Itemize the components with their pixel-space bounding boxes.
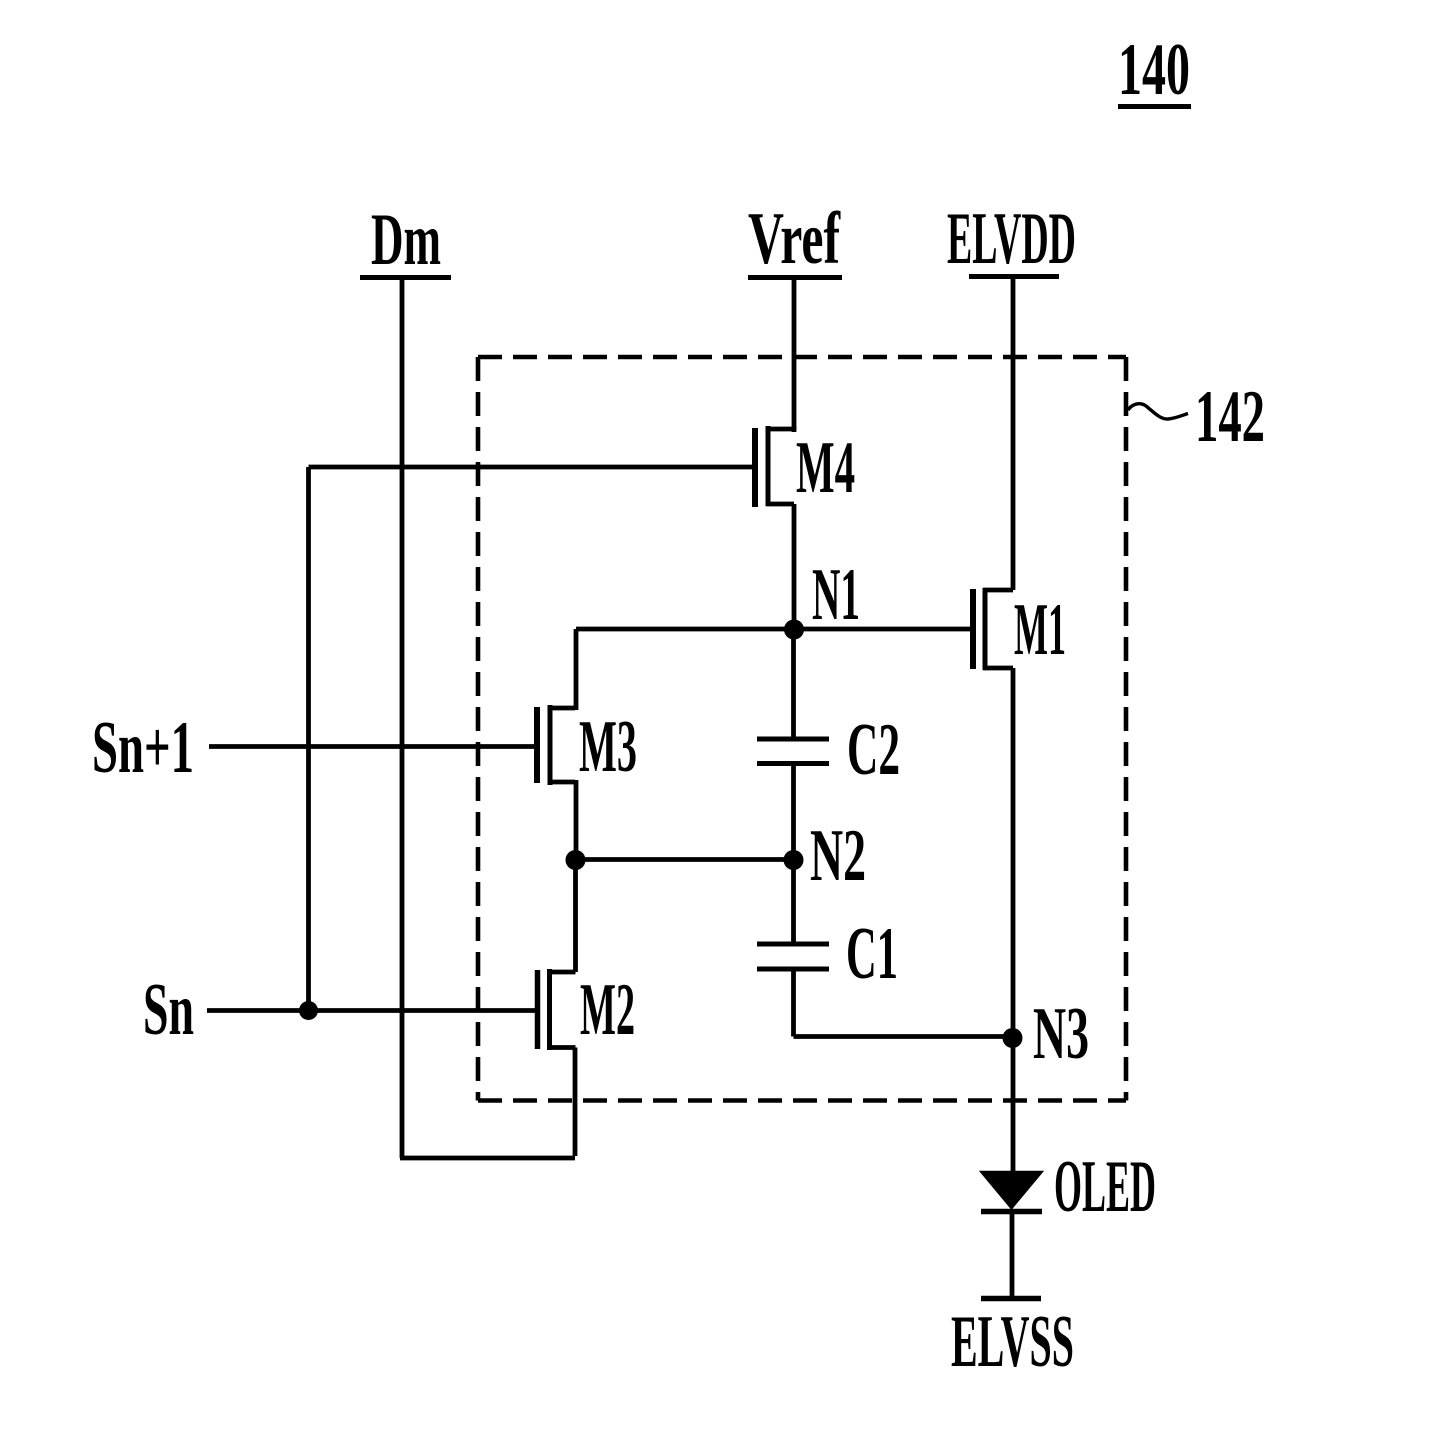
transistor M4 bbox=[755, 426, 794, 507]
wire M1 source to N3 bbox=[1011, 668, 1016, 1038]
label C1 bbox=[846, 913, 898, 995]
node Sn junction bbox=[299, 1001, 318, 1020]
svg-text:C1: C1 bbox=[846, 913, 898, 995]
svg-text:Sn: Sn bbox=[143, 969, 194, 1051]
wire C1 bottom to N3 wire bbox=[791, 969, 796, 1037]
terminal Dm bbox=[360, 199, 451, 281]
terminal Vref bbox=[748, 198, 842, 280]
node N2 left bbox=[566, 850, 586, 870]
wire N2 to C1 top bbox=[791, 860, 796, 945]
node N2 bbox=[784, 850, 804, 870]
wire Vref vertical bbox=[792, 279, 797, 430]
wire N2 horizontal bbox=[576, 857, 794, 862]
svg-text:140: 140 bbox=[1118, 29, 1190, 111]
label Sn+1 bbox=[92, 707, 194, 789]
transistor M2 bbox=[538, 969, 576, 1050]
node N1 bbox=[784, 620, 804, 640]
wire N3 horizontal bbox=[794, 1034, 1013, 1039]
wire left vertical to Sn node bbox=[306, 467, 311, 1011]
wire Dm vertical bbox=[400, 279, 405, 1158]
label OLED bbox=[1054, 1146, 1156, 1228]
wire Sn horizontal bbox=[207, 1008, 539, 1013]
label M2 bbox=[580, 969, 635, 1051]
svg-text:ELVSS: ELVSS bbox=[951, 1301, 1074, 1383]
wire bottom horizontal to M2 source bbox=[400, 1156, 575, 1161]
svg-text:Vref: Vref bbox=[748, 198, 841, 280]
svg-text:Dm: Dm bbox=[371, 199, 441, 281]
wire M3 drain vertical bbox=[574, 629, 579, 710]
label N2 bbox=[810, 815, 866, 897]
terminal ELVSS bbox=[981, 1296, 1041, 1302]
label N3 bbox=[1033, 993, 1089, 1075]
label Sn bbox=[143, 969, 194, 1051]
label C2 bbox=[847, 709, 900, 791]
svg-text:N2: N2 bbox=[810, 815, 866, 897]
wire M4 gate feed horizontal bbox=[309, 465, 758, 470]
wire M2 drain vertical bbox=[573, 860, 578, 973]
wire M3 source to N2 bbox=[574, 780, 579, 860]
svg-text:M3: M3 bbox=[579, 706, 637, 788]
terminal ELVDD bbox=[947, 198, 1076, 280]
dashed box 142 bbox=[478, 357, 1126, 1101]
svg-text:142: 142 bbox=[1195, 376, 1265, 458]
svg-text:ELVDD: ELVDD bbox=[947, 198, 1076, 280]
label N1 bbox=[812, 554, 860, 636]
diode OLED bbox=[981, 1172, 1042, 1299]
label M1 bbox=[1014, 589, 1066, 671]
svg-text:C2: C2 bbox=[847, 709, 900, 791]
wire Sn+1 horizontal bbox=[209, 744, 539, 749]
wire N1 to C2 top bbox=[791, 629, 796, 739]
wire N3 to OLED anode bbox=[1011, 1038, 1016, 1174]
capacitor C2 bbox=[757, 737, 829, 767]
svg-text:M4: M4 bbox=[796, 427, 855, 509]
capacitor C1 bbox=[757, 942, 829, 972]
label 140 bbox=[1118, 29, 1191, 111]
transistor M1 bbox=[973, 588, 1013, 670]
wire ELVDD to M1 drain bbox=[1011, 278, 1016, 590]
label M4 bbox=[796, 427, 855, 509]
node N3 bbox=[1003, 1028, 1023, 1048]
svg-text:OLED: OLED bbox=[1054, 1146, 1156, 1228]
label 142 bbox=[1195, 376, 1265, 458]
squiggle leader for 142 bbox=[1128, 404, 1188, 419]
svg-text:M1: M1 bbox=[1014, 589, 1066, 671]
wire N1 horizontal bbox=[576, 627, 975, 632]
svg-text:Sn+1: Sn+1 bbox=[92, 707, 194, 789]
transistor M3 bbox=[537, 705, 575, 785]
svg-text:N3: N3 bbox=[1033, 993, 1089, 1075]
wire M2 source vertical bbox=[573, 1048, 578, 1157]
wire C2 bottom to N2 bbox=[791, 764, 796, 860]
label M3 bbox=[579, 706, 637, 788]
svg-text:N1: N1 bbox=[812, 554, 860, 636]
svg-text:M2: M2 bbox=[580, 969, 635, 1051]
label ELVSS bbox=[951, 1301, 1074, 1383]
wire M4 source to N1 bbox=[792, 504, 797, 629]
